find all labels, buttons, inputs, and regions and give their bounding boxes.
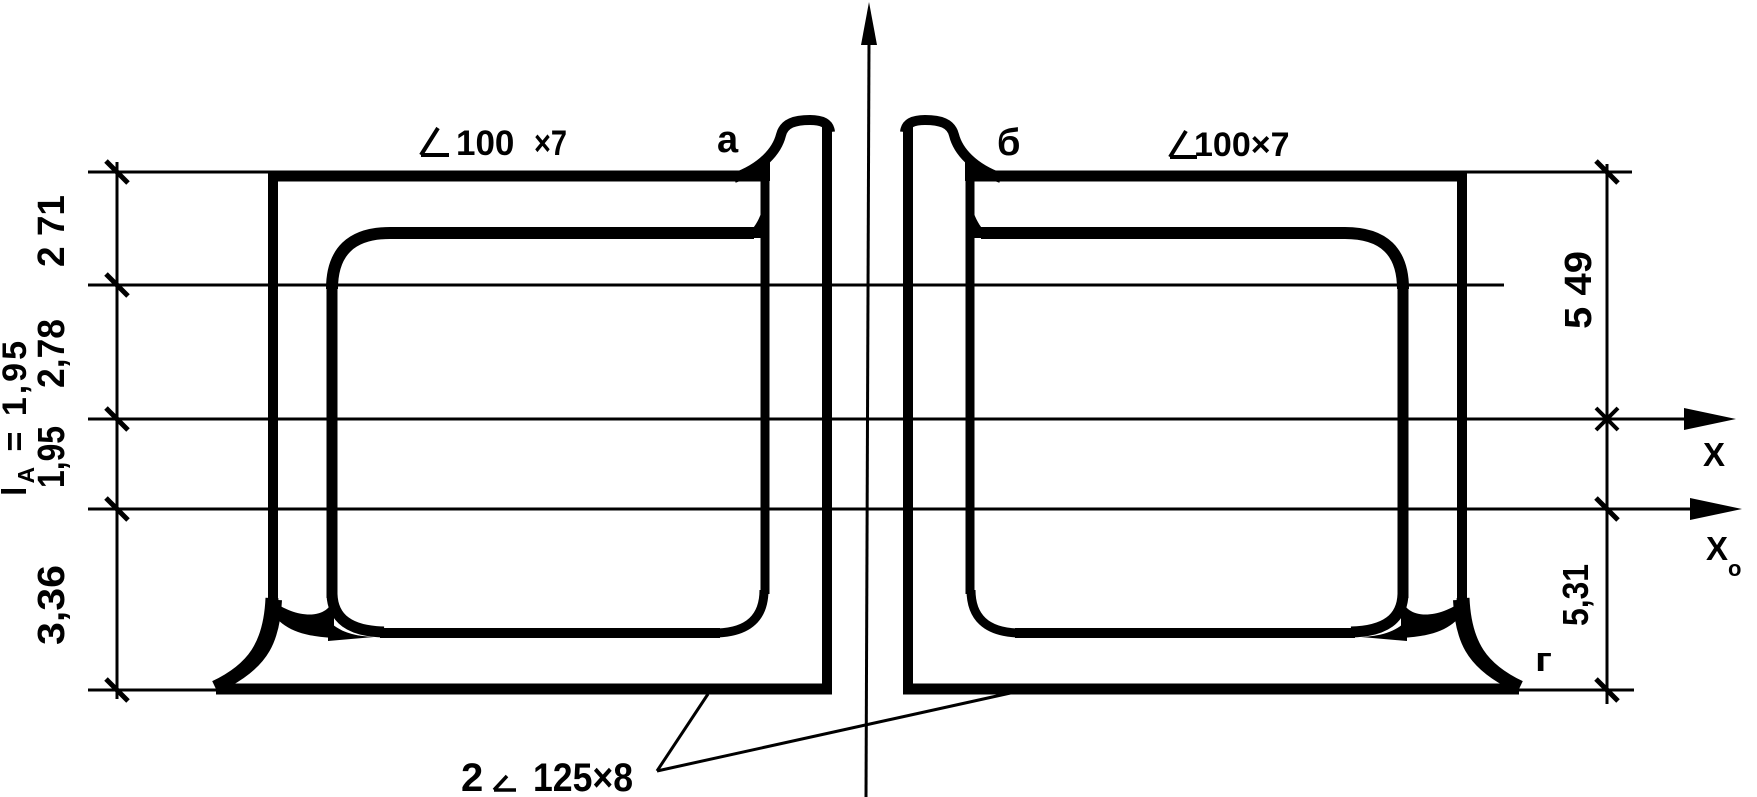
svg-text:а: а <box>717 119 739 161</box>
right half section (mirror) <box>903 120 1520 689</box>
svg-text:2,78: 2,78 <box>31 319 73 388</box>
svg-text:2 71: 2 71 <box>31 195 73 267</box>
svg-text:5 49: 5 49 <box>1558 251 1600 329</box>
svg-text:X: X <box>1703 436 1725 473</box>
X0 axis line <box>88 508 1732 511</box>
svg-text:г: г <box>1535 641 1552 679</box>
horizontal reference line y=285 <box>88 284 1504 287</box>
top extension line right <box>1467 171 1632 174</box>
tick left at y=690 <box>106 679 128 701</box>
X axis arrowhead <box>1684 408 1736 430</box>
centerline arrowhead <box>861 2 877 45</box>
leader line to right bottom angle <box>657 692 1015 771</box>
top extension line left <box>88 171 270 174</box>
label angle symbol right <box>1170 131 1197 157</box>
tick left at y=509 <box>106 498 128 520</box>
svg-text:б: б <box>997 122 1020 164</box>
tick left at y=419 <box>106 408 128 430</box>
right dimension line <box>1606 164 1609 704</box>
tick right at y=172 <box>1596 161 1618 183</box>
svg-text:100: 100 <box>456 124 514 163</box>
tick right at y=690 <box>1596 679 1618 701</box>
svg-text:×7: ×7 <box>534 124 567 163</box>
left dimension line <box>116 162 119 699</box>
left half section (angles) <box>215 120 832 689</box>
svg-text:5,31: 5,31 <box>1555 564 1596 626</box>
vertical centerline axis <box>866 42 869 797</box>
svg-text:100×7: 100×7 <box>1194 126 1290 164</box>
X axis line <box>88 418 1726 421</box>
label angle symbol left <box>421 128 449 155</box>
svg-text:125×8: 125×8 <box>533 756 633 797</box>
tick right at y=509 <box>1596 498 1618 520</box>
leader line to left bottom angle <box>657 694 708 771</box>
angle symbol of bottom callout <box>494 776 516 790</box>
svg-text:2: 2 <box>461 756 483 797</box>
tick left at y=172 <box>106 161 128 183</box>
tick left at y=285 <box>106 274 128 296</box>
tick right at y=419 cross <box>1596 408 1618 430</box>
bottom extension line left <box>88 689 220 692</box>
X0 axis arrowhead <box>1690 498 1742 520</box>
svg-text:3,36: 3,36 <box>31 565 73 645</box>
bottom extension line right <box>1515 689 1634 692</box>
